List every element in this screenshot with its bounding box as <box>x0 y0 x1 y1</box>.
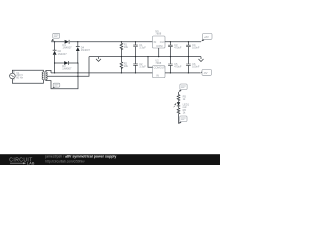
R2 label <box>124 62 129 69</box>
svg-text:1N4007: 1N4007 <box>63 45 73 49</box>
resistor R2 <box>120 57 123 73</box>
wire secondary top to bridge BL <box>46 70 51 73</box>
wire primary bottom <box>12 79 43 83</box>
node junction dots <box>54 41 189 77</box>
wire <box>178 101 180 102</box>
LED LED1 <box>174 102 181 107</box>
net flag -8V <box>201 70 212 76</box>
diode D4 <box>76 47 80 52</box>
svg-text:60 Hz: 60 Hz <box>16 76 23 80</box>
svg-text:1N4007: 1N4007 <box>81 48 91 52</box>
D1 label <box>63 43 73 50</box>
diode D3 <box>64 61 69 65</box>
wire bridge bottom <box>55 62 78 64</box>
C4 label <box>192 43 200 50</box>
wire U1 COM to ground <box>158 48 160 57</box>
capacitor C1 <box>133 42 138 57</box>
diode D1 <box>65 40 70 44</box>
C3 label <box>174 43 182 50</box>
wire U2 out <box>165 72 201 74</box>
svg-text:3.3uF: 3.3uF <box>139 65 146 69</box>
C1 label <box>139 43 146 50</box>
wire secondary bottom, node B loop <box>46 63 78 89</box>
D2 label <box>58 49 68 56</box>
svg-text:+8V: +8V <box>204 35 209 39</box>
V1 label <box>16 71 23 80</box>
svg-text:COM: COM <box>156 44 162 48</box>
svg-text:LAB: LAB <box>27 162 35 165</box>
svg-text:IN: IN <box>156 74 159 78</box>
wire ground to U2 COM <box>148 57 153 68</box>
svg-text:470uF: 470uF <box>174 65 182 69</box>
D3 label <box>62 64 72 71</box>
svg-text:10k: 10k <box>124 64 129 68</box>
svg-text:1N4007: 1N4007 <box>58 52 68 56</box>
R5 label <box>183 95 187 102</box>
capacitor C6 <box>186 57 191 73</box>
wire LED chain top <box>178 92 180 95</box>
R1 label <box>124 43 129 50</box>
U2 label <box>155 58 161 65</box>
D4 label <box>81 46 91 53</box>
resistor R6 <box>177 108 180 114</box>
R6 label <box>183 108 187 115</box>
ground symbol 1 <box>96 57 101 62</box>
resistor R1 <box>120 42 123 57</box>
C5 label <box>174 62 182 69</box>
svg-text:7808: 7808 <box>155 32 161 36</box>
C6 label <box>192 62 200 69</box>
wire bridge left vertical <box>54 42 56 63</box>
wire <box>178 106 180 108</box>
svg-text:3.3uF: 3.3uF <box>139 46 146 50</box>
capacitor C3 <box>168 42 173 57</box>
diode D2 <box>53 50 57 55</box>
svg-text:1N4007: 1N4007 <box>62 67 72 71</box>
wire -raw rail left (BL down, to the right) <box>51 63 153 73</box>
svg-text:470uF: 470uF <box>174 46 182 50</box>
op-amp U2 regulator 7908 <box>153 66 166 78</box>
op-amp U1 regulator 7808 <box>153 36 166 48</box>
net flag LED bottom <box>179 116 188 124</box>
net flag +8V <box>201 34 212 42</box>
capacitor C5 <box>168 57 173 73</box>
wire U1 out <box>165 41 201 43</box>
wire primary top <box>12 70 43 73</box>
CircuitLab logo <box>9 158 35 166</box>
ground rail mid <box>89 56 201 58</box>
wire center tap to ground corner <box>47 57 89 77</box>
wire LED chain bottom <box>178 114 180 124</box>
svg-text:OUT: OUT <box>160 66 166 70</box>
U1 label <box>155 29 161 36</box>
wire bridge right vertical <box>77 42 79 63</box>
svg-text:COM: COM <box>154 66 160 70</box>
net flag SEC (near transformer) <box>52 83 60 88</box>
net flag top-left <box>51 33 59 41</box>
svg-text:http://circuitlab.com/c/59hkv: http://circuitlab.com/c/59hkv <box>45 159 85 163</box>
C2 label <box>139 62 146 69</box>
ground symbol 2 <box>199 57 204 62</box>
net flag LED top <box>179 84 187 92</box>
svg-text:7908: 7908 <box>155 61 161 65</box>
svg-text:100nF: 100nF <box>192 46 200 50</box>
svg-text:OUT: OUT <box>160 40 166 44</box>
footer black bar <box>0 154 220 165</box>
svg-text:-8V: -8V <box>203 71 207 75</box>
capacitor C2 <box>133 57 138 73</box>
svg-text:100nF: 100nF <box>192 65 200 69</box>
capacitor C4 <box>186 42 191 57</box>
transformer T1 <box>42 71 47 80</box>
svg-text:10k: 10k <box>124 45 129 49</box>
resistor R5 <box>177 95 180 101</box>
LED1 label <box>183 102 190 109</box>
svg-text:IN: IN <box>154 40 157 44</box>
voltage source V1 <box>10 71 16 80</box>
wire top +raw rail <box>51 41 152 43</box>
svg-text:jamesf/psh / ±8V symmetrical p: jamesf/psh / ±8V symmetrical power suppl… <box>44 155 116 159</box>
